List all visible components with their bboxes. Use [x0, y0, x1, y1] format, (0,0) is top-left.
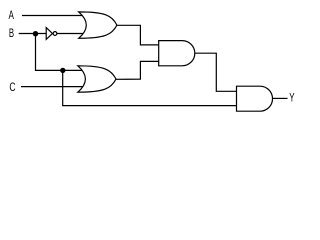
svg-text:B: B [9, 27, 14, 40]
svg-text:C: C [9, 81, 15, 94]
svg-text:Y: Y [289, 91, 294, 104]
svg-text:A: A [9, 9, 15, 22]
